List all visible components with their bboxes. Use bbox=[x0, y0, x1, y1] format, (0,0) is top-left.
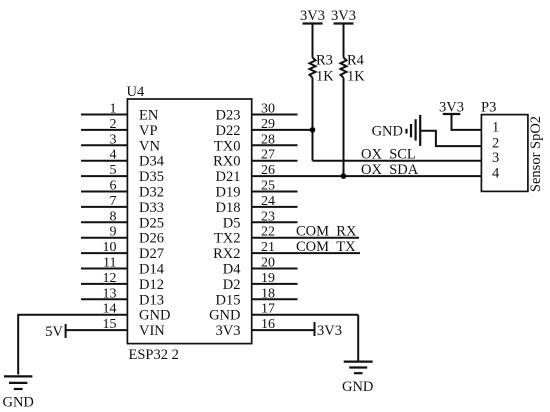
svg-text:D25: D25 bbox=[139, 215, 164, 231]
svg-text:14: 14 bbox=[103, 302, 117, 317]
svg-text:1: 1 bbox=[110, 102, 117, 117]
svg-text:30: 30 bbox=[261, 102, 275, 117]
svg-text:VN: VN bbox=[139, 138, 160, 154]
svg-text:17: 17 bbox=[261, 302, 275, 317]
svg-text:27: 27 bbox=[261, 148, 275, 163]
svg-text:GND: GND bbox=[139, 308, 170, 324]
svg-text:23: 23 bbox=[261, 209, 275, 224]
svg-text:6: 6 bbox=[110, 179, 117, 194]
svg-text:D15: D15 bbox=[216, 292, 241, 308]
svg-text:20: 20 bbox=[261, 256, 275, 271]
svg-text:RX0: RX0 bbox=[213, 154, 240, 170]
svg-text:4: 4 bbox=[492, 166, 500, 182]
svg-text:18: 18 bbox=[261, 286, 275, 301]
svg-text:3: 3 bbox=[492, 150, 499, 166]
svg-text:GND: GND bbox=[372, 124, 403, 140]
svg-text:COM TX: COM TX bbox=[296, 239, 356, 255]
svg-text:D13: D13 bbox=[139, 292, 164, 308]
svg-text:21: 21 bbox=[261, 240, 275, 255]
svg-text:D22: D22 bbox=[216, 123, 241, 139]
svg-text:TX0: TX0 bbox=[214, 138, 241, 154]
svg-text:4: 4 bbox=[110, 148, 117, 163]
svg-text:26: 26 bbox=[261, 163, 275, 178]
svg-text:3V3: 3V3 bbox=[331, 8, 356, 24]
svg-text:D21: D21 bbox=[216, 169, 241, 185]
svg-text:D26: D26 bbox=[139, 231, 164, 247]
svg-text:D18: D18 bbox=[216, 200, 241, 216]
svg-text:D2: D2 bbox=[223, 277, 241, 293]
svg-text:2: 2 bbox=[492, 136, 499, 152]
svg-text:D35: D35 bbox=[139, 169, 164, 185]
svg-text:7: 7 bbox=[110, 194, 117, 209]
svg-text:3V3: 3V3 bbox=[300, 8, 325, 24]
svg-text:5V: 5V bbox=[45, 324, 63, 340]
svg-text:D4: D4 bbox=[223, 262, 241, 278]
svg-text:OX SCL: OX SCL bbox=[361, 147, 416, 163]
svg-text:19: 19 bbox=[261, 271, 275, 286]
svg-text:22: 22 bbox=[261, 225, 275, 240]
svg-text:Sensor SpO2: Sensor SpO2 bbox=[528, 116, 544, 192]
svg-text:COM RX: COM RX bbox=[296, 224, 357, 240]
svg-text:D27: D27 bbox=[139, 246, 164, 262]
svg-text:D12: D12 bbox=[139, 277, 164, 293]
svg-text:VP: VP bbox=[139, 123, 158, 139]
svg-text:D33: D33 bbox=[139, 200, 164, 216]
svg-text:11: 11 bbox=[103, 256, 116, 271]
svg-text:25: 25 bbox=[261, 179, 275, 194]
svg-text:P3: P3 bbox=[481, 100, 496, 116]
svg-text:2: 2 bbox=[110, 117, 117, 132]
svg-text:D14: D14 bbox=[139, 262, 165, 278]
svg-text:D32: D32 bbox=[139, 185, 164, 201]
svg-text:16: 16 bbox=[261, 317, 275, 332]
svg-text:GND: GND bbox=[342, 379, 373, 395]
svg-text:10: 10 bbox=[103, 240, 117, 255]
svg-text:D5: D5 bbox=[223, 215, 241, 231]
svg-text:5: 5 bbox=[110, 163, 117, 178]
svg-text:GND: GND bbox=[2, 395, 33, 411]
svg-text:3V3: 3V3 bbox=[216, 323, 241, 339]
svg-text:15: 15 bbox=[103, 317, 117, 332]
svg-text:1K: 1K bbox=[347, 69, 365, 85]
svg-text:D23: D23 bbox=[216, 108, 241, 124]
svg-text:24: 24 bbox=[261, 194, 275, 209]
svg-text:EN: EN bbox=[139, 108, 159, 124]
svg-text:GND: GND bbox=[209, 308, 240, 324]
svg-text:28: 28 bbox=[261, 132, 275, 147]
svg-text:RX2: RX2 bbox=[213, 246, 240, 262]
svg-text:D19: D19 bbox=[216, 185, 241, 201]
svg-text:12: 12 bbox=[103, 271, 117, 286]
svg-text:R3: R3 bbox=[316, 53, 333, 69]
svg-text:TX2: TX2 bbox=[214, 231, 241, 247]
svg-text:9: 9 bbox=[110, 225, 117, 240]
svg-text:1: 1 bbox=[492, 119, 499, 135]
svg-text:OX SDA: OX SDA bbox=[361, 162, 419, 178]
svg-text:D34: D34 bbox=[139, 154, 165, 170]
svg-text:13: 13 bbox=[103, 286, 117, 301]
svg-text:VIN: VIN bbox=[139, 323, 165, 339]
svg-text:ESP32 2: ESP32 2 bbox=[129, 347, 179, 363]
svg-text:U4: U4 bbox=[127, 84, 145, 100]
svg-text:R4: R4 bbox=[347, 53, 365, 69]
svg-text:1K: 1K bbox=[316, 69, 334, 85]
svg-text:29: 29 bbox=[261, 117, 275, 132]
svg-text:3: 3 bbox=[110, 132, 117, 147]
svg-text:8: 8 bbox=[110, 209, 117, 224]
svg-text:3V3: 3V3 bbox=[317, 323, 342, 339]
